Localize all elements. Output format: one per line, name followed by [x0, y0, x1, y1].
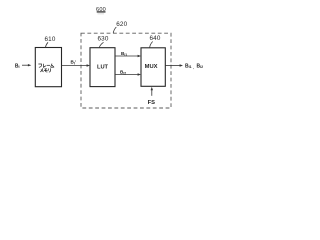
svg-text:BI: BI	[15, 63, 20, 69]
svg-text:BI1: BI1	[185, 63, 192, 69]
svg-text:FS: FS	[148, 100, 156, 106]
svg-text:BI2: BI2	[197, 63, 204, 69]
svg-text:610: 610	[44, 36, 55, 43]
svg-text:630: 630	[97, 35, 108, 42]
svg-text:LUT: LUT	[97, 65, 109, 71]
svg-text:MUX: MUX	[145, 64, 158, 70]
svg-text:,: ,	[193, 64, 194, 69]
svg-text:BI': BI'	[71, 60, 76, 66]
svg-text:640: 640	[149, 35, 160, 42]
svg-text:620: 620	[116, 21, 127, 28]
